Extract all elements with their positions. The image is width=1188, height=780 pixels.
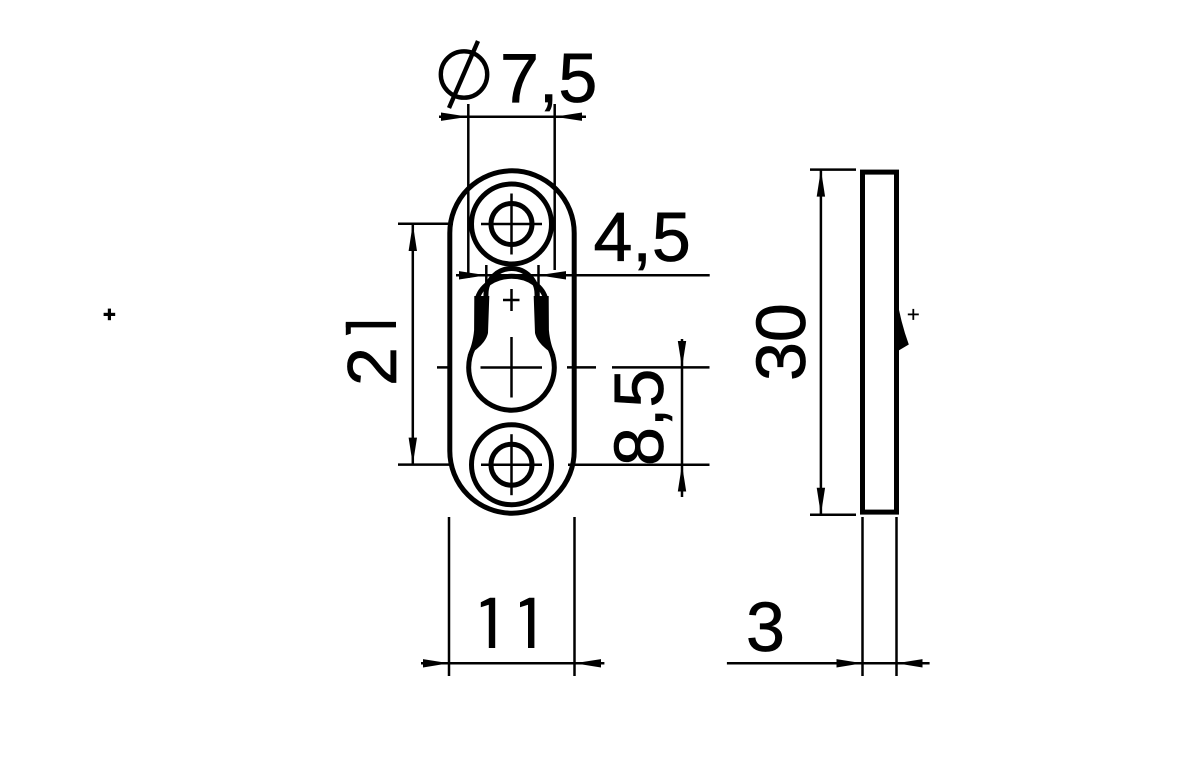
dimension text 30 (rotated) [742,303,820,381]
svg-text:7,5: 7,5 [500,39,597,117]
side view plate rectangle [863,172,897,512]
dimension text 21 (rotated) [333,322,411,386]
dimension 21 extension lines [398,224,453,465]
dimension 21 top arrow [409,224,417,251]
bottom hole countersink circle [472,425,552,505]
dimension 4,5 dimension line [456,274,710,277]
dimension text 3 [746,588,785,666]
side view small plus mark [908,309,919,320]
dimension 3 extension lines [863,517,897,676]
svg-text:3: 3 [746,588,785,666]
dimension 3 dimension line with left leader [727,662,930,665]
dimension 3 left arrow [837,659,863,667]
dimension text 8,5 (rotated) [600,369,678,466]
keyhole big circle [469,348,555,410]
dimension 30 extension lines [810,170,856,515]
keyhole recess left wing fill [468,296,490,356]
plate outline front view (stadium) [450,171,574,513]
dimension 8,5 extension line top (keyhole centerline) [567,366,710,369]
dimension 3 right arrow [897,659,923,667]
dimension 30 bottom arrow [817,488,825,515]
top hole countersink circle [472,184,552,264]
dimension 4,5 left arrow [459,271,486,279]
dimension 8,5 top arrow [678,341,686,367]
dimension 7,5 extension lines [468,104,554,278]
dimension 7,5 dimension line [439,115,586,118]
top hole bore circle [491,204,532,245]
dimension text 11 [481,598,535,648]
dimension 8,5 bottom arrow [678,465,686,492]
dimension 11 right arrow [575,659,602,667]
svg-text:8,5: 8,5 [600,369,678,466]
dimension 30 top arrow [817,170,825,197]
bottom hole bore circle [491,444,532,485]
top hole crosshair centerlines [481,194,542,255]
keyhole circle crosshair centerlines [481,337,543,398]
svg-text:30: 30 [742,303,820,381]
dimension 21 bottom arrow [409,438,417,465]
keyhole slot-top center mark cross [503,289,520,311]
dimension 4,5 extension ticks [486,265,538,298]
svg-text:4,5: 4,5 [594,198,691,276]
dimension 30 dimension line [820,170,823,515]
dimension 8,5 extension line bottom [568,464,710,467]
dimension text 4,5 [594,198,691,276]
dimension 11 left arrow [423,659,449,667]
dimension 8,5 dimension line [681,339,684,497]
dimension 7,5 right arrow [555,113,582,121]
dimension 11 extension lines [449,517,575,676]
keyhole recess right wing fill [534,296,556,356]
keyhole centerline dash left of plate [437,366,452,369]
dimension 4,5 right arrow [539,271,567,279]
dimension 11 dimension line [421,662,604,665]
dimension 21 dimension line [412,224,415,465]
keyhole countersink recess outline [477,276,546,328]
dimension text 7,5 [500,39,597,117]
side view surface sliver mark [897,296,909,352]
bottom hole crosshair centerlines [481,434,542,495]
registration plus mark left margin [104,309,116,321]
svg-text:2: 2 [333,347,411,386]
dimension 7,5 left arrow [441,113,468,121]
diameter symbol of 7,5 [441,41,487,108]
keyhole slot outline [485,269,538,335]
